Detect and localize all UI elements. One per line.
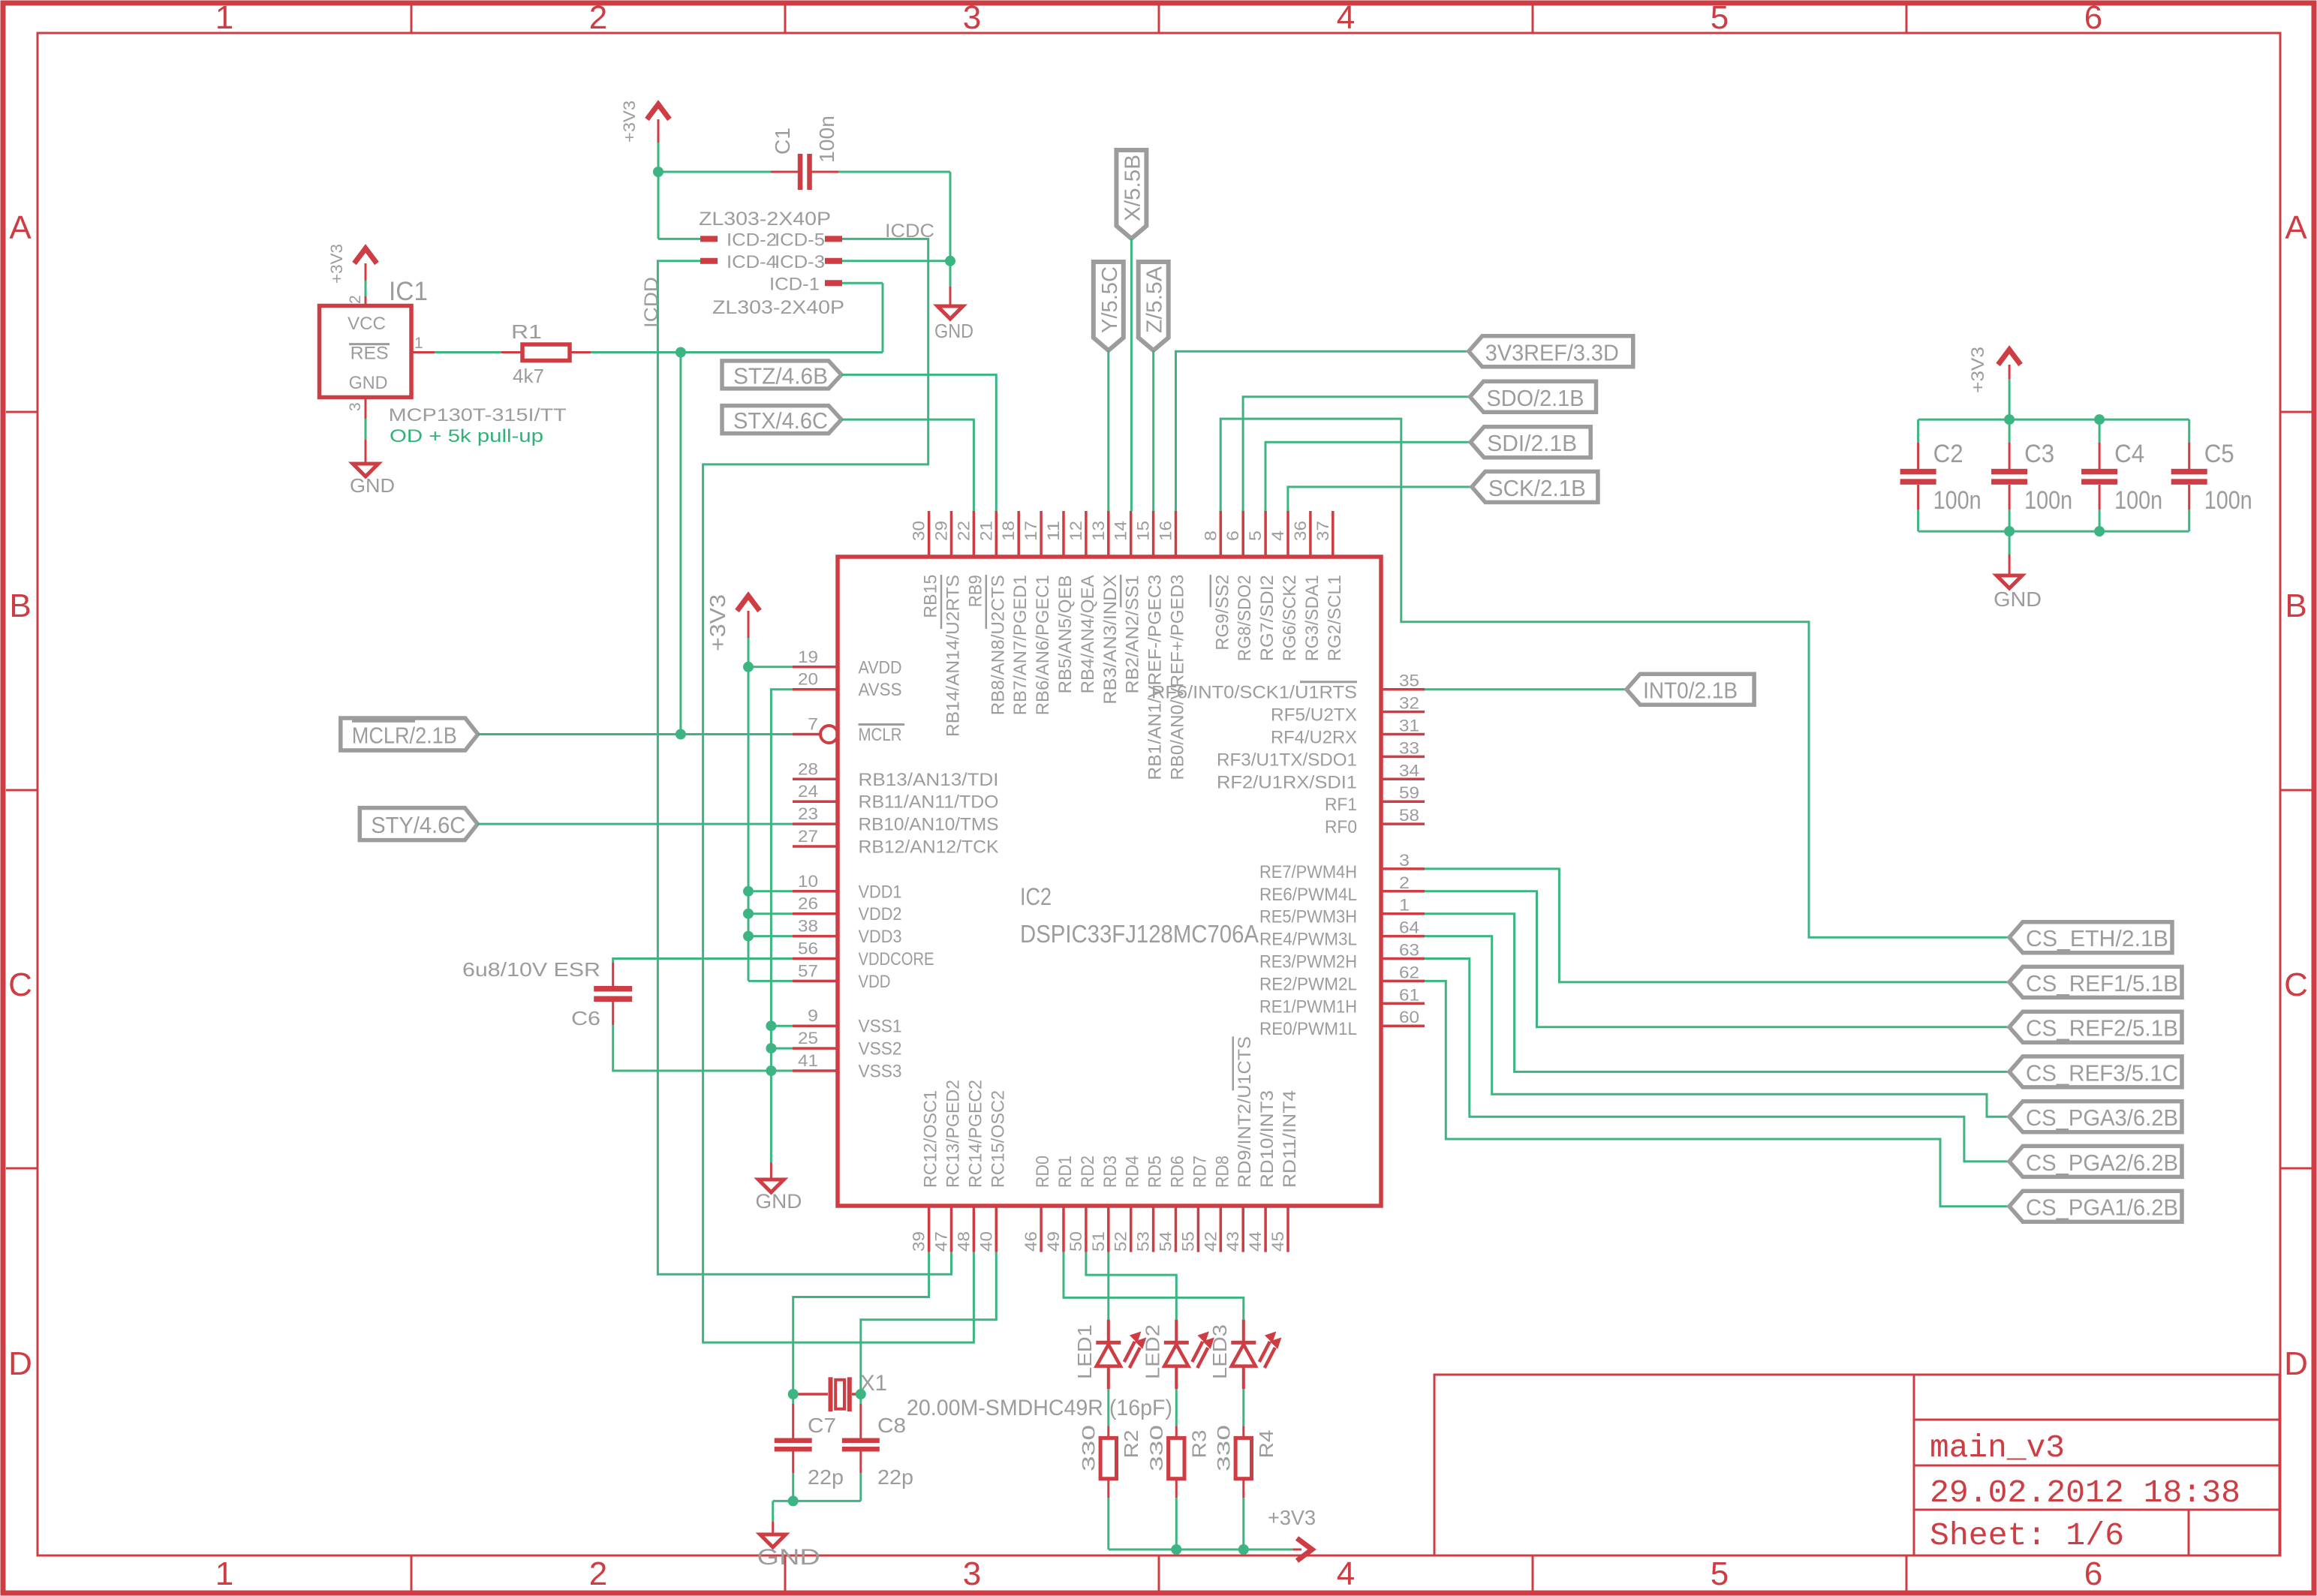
svg-text:+3V3: +3V3 xyxy=(620,101,639,143)
power +3V3 (ICD) xyxy=(620,101,670,143)
svg-text:C4: C4 xyxy=(2114,440,2144,468)
resistor R1 4k7 xyxy=(501,320,591,387)
svg-text:Z/5.5A: Z/5.5A xyxy=(1143,266,1167,333)
svg-text:RB2/AN2/SS1: RB2/AN2/SS1 xyxy=(1123,575,1143,693)
net tag MCLR/2.1B xyxy=(341,718,478,750)
svg-text:10: 10 xyxy=(798,872,818,891)
svg-text:RF3/U1TX/SDO1: RF3/U1TX/SDO1 xyxy=(1217,750,1357,770)
svg-text:45: 45 xyxy=(1268,1231,1287,1252)
IC2 pin 18 RB7/AN7/PGED1 (top) xyxy=(999,511,1031,715)
IC2 pin 6 RG8/SDO2 (top) xyxy=(1223,511,1255,661)
svg-text:2: 2 xyxy=(589,0,607,36)
svg-text:RD9/INT2/U1CTS: RD9/INT2/U1CTS xyxy=(1235,1036,1255,1188)
wire R1 output / MCLR net xyxy=(591,283,883,734)
node VDD3 junction xyxy=(743,931,754,942)
svg-text:4: 4 xyxy=(1268,530,1287,541)
IC2 pin 25 VSS2 (left) xyxy=(793,1029,902,1059)
wire INT0 net (IC2 pin 35) xyxy=(1425,688,1626,690)
svg-text:ICD-2: ICD-2 xyxy=(727,230,777,251)
IC2 pin 60 RE0/PWM1L (right) xyxy=(1259,1008,1425,1039)
IC2 pin 46 RD0 (bottom) xyxy=(1022,1156,1053,1252)
node crystal right junction xyxy=(856,1389,866,1399)
resistor R2 330 xyxy=(1079,1425,1142,1498)
svg-text:GND: GND xyxy=(349,373,388,393)
svg-text:2: 2 xyxy=(589,1555,607,1592)
IC2 pin 13 RB3/AN3/INDX (top) xyxy=(1089,511,1121,705)
svg-text:RD1: RD1 xyxy=(1055,1156,1076,1188)
svg-text:58: 58 xyxy=(1399,806,1419,825)
svg-text:RE6/PWM4L: RE6/PWM4L xyxy=(1259,885,1357,905)
svg-text:41: 41 xyxy=(798,1051,818,1070)
wire C1 right to ICD-3 / GND xyxy=(838,172,950,287)
IC1 MCP130T-315I/TT xyxy=(320,295,435,419)
svg-text:IC2: IC2 xyxy=(1020,883,1052,910)
svg-text:RD5: RD5 xyxy=(1145,1156,1166,1188)
IC2 pin 55 RD7 (bottom) xyxy=(1178,1156,1210,1252)
IC2 pin 49 RD1 (bottom) xyxy=(1044,1156,1076,1252)
wire CS_REF3 net (IC2 pin 1) xyxy=(1425,914,2009,1072)
IC2 pin 23 RB10/AN10/TMS (left) xyxy=(793,804,999,835)
IC2 pin 24 RB11/AN11/TDO (left) xyxy=(793,782,999,813)
svg-text:28: 28 xyxy=(798,759,818,778)
wire C2-C5 bottom rail xyxy=(1918,530,2189,533)
IC2 pin 22 RB9 (top) xyxy=(954,511,985,607)
connector ICD pin ICD-5 xyxy=(775,230,842,251)
node cap rail junction C4 top xyxy=(2094,414,2105,425)
wire CS_PGA1 net (IC2 pin 62) xyxy=(1425,981,2009,1206)
svg-text:C5: C5 xyxy=(2204,440,2234,468)
svg-text:3: 3 xyxy=(1399,851,1410,870)
node LED3 rail junction xyxy=(1238,1544,1249,1555)
svg-text:SDO/2.1B: SDO/2.1B xyxy=(1487,385,1584,411)
node +3V3/C1 junction xyxy=(653,167,664,177)
capacitor C2 100n xyxy=(1900,419,1981,531)
LED LED1 xyxy=(1073,1320,1145,1389)
svg-text:55: 55 xyxy=(1178,1231,1197,1252)
svg-text:53: 53 xyxy=(1134,1231,1153,1252)
svg-text:20: 20 xyxy=(798,670,818,689)
IC2 pin 30 RB15 (top) xyxy=(910,511,941,618)
node C7 ground junction xyxy=(788,1495,799,1506)
svg-text:IC1: IC1 xyxy=(389,277,428,306)
IC2 pin 59 RF1 (right) xyxy=(1325,783,1425,815)
svg-text:12: 12 xyxy=(1067,521,1085,541)
net tag CS_ETH/2.1B xyxy=(2009,922,2172,953)
svg-text:1: 1 xyxy=(1399,896,1410,915)
node LED2 rail junction xyxy=(1171,1544,1181,1555)
svg-text:4: 4 xyxy=(1337,0,1355,36)
svg-text:C: C xyxy=(2284,966,2308,1003)
wire C1 left xyxy=(658,171,771,173)
svg-text:Y/5.5C: Y/5.5C xyxy=(1098,266,1122,333)
power +3V3 (C2-C5) xyxy=(1968,347,2021,393)
IC2 pin 37 RG2/SCL1 (top) xyxy=(1313,511,1345,661)
svg-text:LED3: LED3 xyxy=(1208,1324,1231,1379)
node VDD1 junction xyxy=(743,886,754,897)
svg-text:R3: R3 xyxy=(1187,1430,1210,1459)
svg-text:15: 15 xyxy=(1134,521,1153,541)
ground (crystal) xyxy=(757,1522,820,1570)
IC2 pin 28 RB13/AN13/TDI (left) xyxy=(793,759,999,790)
svg-text:RB0/AN0/VREF+/PGED3: RB0/AN0/VREF+/PGED3 xyxy=(1168,575,1188,780)
IC2 pin 11 RB5/AN5/QEB (top) xyxy=(1044,511,1076,693)
wire R3 to +3V3 rail xyxy=(1175,1498,1178,1549)
svg-text:34: 34 xyxy=(1399,761,1419,780)
net tag CS_REF3/5.1C xyxy=(2009,1056,2182,1087)
svg-text:VSS2: VSS2 xyxy=(859,1039,902,1059)
svg-text:+3V3: +3V3 xyxy=(1968,347,1988,393)
wire STX to IC2 pin 22 xyxy=(841,419,973,511)
title block xyxy=(1434,1375,2279,1555)
capacitor C8 22p xyxy=(842,1394,913,1489)
svg-text:LED2: LED2 xyxy=(1142,1324,1164,1379)
capacitor C6 6u8/10V ESR xyxy=(462,958,632,1029)
IC2 pin 43 RD9/INT2/U1CTS (bottom) xyxy=(1223,1036,1255,1252)
svg-text:29: 29 xyxy=(932,521,951,541)
svg-text:Sheet: 1/6: Sheet: 1/6 xyxy=(1930,1517,2124,1554)
svg-text:5: 5 xyxy=(1711,0,1729,36)
node ICD-3/GND junction xyxy=(945,256,955,266)
svg-text:VSS1: VSS1 xyxy=(859,1017,902,1037)
svg-text:INT0/2.1B: INT0/2.1B xyxy=(1643,678,1738,704)
node VSS3 junction xyxy=(766,1066,776,1076)
svg-text:49: 49 xyxy=(1044,1231,1063,1252)
IC2 pin 36 RG3/SDA1 (top) xyxy=(1291,511,1322,661)
net tag CS_PGA1/6.2B xyxy=(2009,1191,2182,1222)
svg-text:D: D xyxy=(8,1345,32,1382)
svg-text:30: 30 xyxy=(910,521,928,541)
svg-text:38: 38 xyxy=(798,917,818,936)
node VSS1 junction xyxy=(766,1020,776,1031)
IC2 pin 35 RF6/INT0/SCK1/U1RTS (right) xyxy=(1151,672,1425,703)
IC2 pin 19 AVDD (left) xyxy=(793,648,902,678)
svg-text:RC12/OSC1: RC12/OSC1 xyxy=(921,1090,941,1188)
wire AVSS/VSS ground net xyxy=(771,690,793,1163)
IC2 pin 27 RB12/AN12/TCK (left) xyxy=(793,827,999,858)
node R1/ICD junction xyxy=(676,347,686,358)
node cap rail junction C4 bottom xyxy=(2094,526,2105,537)
IC2 pin 48 RC14/PGEC2 (bottom) xyxy=(954,1080,985,1252)
svg-text:6u8/10V ESR: 6u8/10V ESR xyxy=(462,958,600,981)
svg-text:39: 39 xyxy=(910,1231,928,1252)
capacitor C3 100n xyxy=(1991,419,2072,531)
svg-text:61: 61 xyxy=(1399,985,1419,1004)
svg-text:40: 40 xyxy=(976,1231,995,1252)
IC2 pin 1 RE5/PWM3H (right) xyxy=(1259,896,1425,927)
svg-text:6: 6 xyxy=(2084,0,2102,36)
node cap rail junction C3 top xyxy=(2004,414,2015,425)
svg-text:19: 19 xyxy=(798,648,818,666)
net tag X/5.5B xyxy=(1116,150,1146,239)
IC2 pin 39 RC12/OSC1 (bottom) xyxy=(910,1090,941,1252)
svg-text:main_v3: main_v3 xyxy=(1930,1429,2065,1466)
wire C2-C5 top rail xyxy=(1918,419,2189,421)
wire X to IC2 pin 14 xyxy=(1130,239,1133,511)
svg-text:RE4/PWM3L: RE4/PWM3L xyxy=(1259,930,1357,950)
svg-text:RF6/INT0/SCK1/U1RTS: RF6/INT0/SCK1/U1RTS xyxy=(1151,683,1357,703)
wire ICDC net (ICD-5 to IC2 pin 48) xyxy=(703,239,974,1342)
svg-text:ICD-1: ICD-1 xyxy=(769,275,820,295)
svg-text:100n: 100n xyxy=(2114,486,2162,515)
svg-text:RE2/PWM2L: RE2/PWM2L xyxy=(1259,974,1357,994)
svg-text:7: 7 xyxy=(808,715,818,734)
svg-text:32: 32 xyxy=(1399,694,1419,713)
svg-text:4k7: 4k7 xyxy=(513,365,544,387)
net tag SCK/2.1B xyxy=(1472,471,1598,502)
svg-text:AVDD: AVDD xyxy=(859,657,902,678)
IC2 pin 47 RC13/PGED2 (bottom) xyxy=(932,1080,964,1252)
svg-text:RB9: RB9 xyxy=(965,575,985,607)
wire +3V3 to IC1 VCC xyxy=(365,281,367,296)
svg-text:RE7/PWM4H: RE7/PWM4H xyxy=(1259,862,1357,882)
wire C6 to VSS3 xyxy=(613,1025,793,1071)
svg-text:ICD-3: ICD-3 xyxy=(775,252,825,272)
wire IC2 pin 49 to LED3 xyxy=(1064,1252,1244,1320)
svg-text:SDI/2.1B: SDI/2.1B xyxy=(1487,430,1577,456)
svg-text:3: 3 xyxy=(347,402,364,411)
svg-text:23: 23 xyxy=(798,804,818,823)
IC2 pin 9 VSS1 (left) xyxy=(793,1006,902,1037)
svg-text:RG7/SDI2: RG7/SDI2 xyxy=(1257,575,1277,661)
net tag SDI/2.1B xyxy=(1470,427,1590,458)
resistor R3 330 xyxy=(1147,1425,1211,1498)
svg-text:RG2/SCL1: RG2/SCL1 xyxy=(1325,575,1345,661)
svg-text:RG9/SS2: RG9/SS2 xyxy=(1212,575,1232,651)
svg-text:GND: GND xyxy=(1994,588,2042,611)
IC2 pin 51 RD3 (bottom) xyxy=(1089,1156,1121,1252)
svg-text:RE5/PWM3H: RE5/PWM3H xyxy=(1259,907,1357,927)
svg-text:46: 46 xyxy=(1022,1231,1040,1252)
svg-text:CS_PGA2/6.2B: CS_PGA2/6.2B xyxy=(2026,1150,2178,1176)
wire IC2 pin 40 to crystal xyxy=(861,1252,997,1394)
svg-text:5: 5 xyxy=(1246,530,1265,541)
wire C7/C8 to ground xyxy=(773,1473,861,1522)
IC2 pin 14 RB2/AN2/SS1 (top) xyxy=(1112,511,1143,693)
svg-text:RE1/PWM1H: RE1/PWM1H xyxy=(1259,996,1357,1017)
svg-text:C3: C3 xyxy=(2024,440,2054,468)
svg-text:RG8/SDO2: RG8/SDO2 xyxy=(1235,575,1255,661)
IC2 pin 50 RD2 (bottom) xyxy=(1067,1156,1098,1252)
svg-text:43: 43 xyxy=(1223,1231,1242,1252)
net tag 3V3REF/3.3D xyxy=(1469,336,1633,367)
svg-text:60: 60 xyxy=(1399,1008,1419,1026)
node MCLR junction xyxy=(676,729,686,740)
IC2 pin 40 RC15/OSC2 (bottom) xyxy=(976,1090,1008,1252)
svg-text:OD + 5k pull-up: OD + 5k pull-up xyxy=(390,426,543,446)
svg-text:RB1/AN1/VREF-/PGEC3: RB1/AN1/VREF-/PGEC3 xyxy=(1145,575,1166,780)
IC2 pin 61 RE1/PWM1H (right) xyxy=(1259,985,1425,1017)
IC2 pin 31 RF4/U2RX (right) xyxy=(1271,717,1425,748)
power +3V3 (LED rail) xyxy=(1268,1506,1316,1561)
svg-text:100n: 100n xyxy=(2204,486,2252,515)
wire R2 to +3V3 rail xyxy=(1107,1498,1109,1549)
IC2 pin 53 RD5 (bottom) xyxy=(1134,1156,1166,1252)
svg-text:VSS3: VSS3 xyxy=(859,1062,902,1082)
svg-text:16: 16 xyxy=(1157,521,1175,541)
IC2 pin 56 VDDCORE (left) xyxy=(793,939,934,970)
svg-text:RG3/SDA1: RG3/SDA1 xyxy=(1302,575,1322,661)
wire Z to IC2 pin 15 xyxy=(1152,350,1154,511)
svg-text:22p: 22p xyxy=(808,1465,844,1489)
svg-text:6: 6 xyxy=(2084,1555,2102,1592)
IC2 pin 7 MCLR (left) xyxy=(793,715,904,746)
svg-text:5: 5 xyxy=(1711,1555,1729,1592)
node VSS2 junction xyxy=(766,1043,776,1053)
wire ICD-1 stub xyxy=(842,282,883,284)
svg-text:RB14/AN14/U2RTS: RB14/AN14/U2RTS xyxy=(943,575,964,737)
power +3V3 (IC1) xyxy=(327,244,377,284)
wire CS_REF1 net (IC2 pin 3) xyxy=(1425,869,2009,982)
svg-text:GND: GND xyxy=(757,1545,820,1570)
svg-text:RG6/SCK2: RG6/SCK2 xyxy=(1280,575,1300,661)
LED LED2 xyxy=(1142,1320,1214,1389)
svg-text:CS_PGA1/6.2B: CS_PGA1/6.2B xyxy=(2026,1195,2178,1221)
svg-text:RC15/OSC2: RC15/OSC2 xyxy=(988,1090,1008,1188)
wire STZ to IC2 pin 21 xyxy=(841,374,996,511)
power +3V3 (IC2 VDD) xyxy=(706,594,760,651)
IC2 pin 41 VSS3 (left) xyxy=(793,1051,902,1082)
IC2 pin 21 RB8/AN8/U2CTS (top) xyxy=(976,511,1008,715)
svg-text:RES: RES xyxy=(351,344,389,364)
IC2 pin 52 RD4 (bottom) xyxy=(1112,1156,1143,1252)
LED LED3 xyxy=(1208,1320,1280,1389)
svg-text:RD4: RD4 xyxy=(1123,1156,1143,1188)
wire LED2 to R3 xyxy=(1175,1389,1178,1426)
svg-text:RF5/U2TX: RF5/U2TX xyxy=(1271,705,1357,726)
svg-text:RF2/U1RX/SDI1: RF2/U1RX/SDI1 xyxy=(1217,772,1357,792)
svg-text:27: 27 xyxy=(798,827,818,846)
svg-text:22p: 22p xyxy=(877,1465,913,1489)
svg-text:ZL303-2X40P: ZL303-2X40P xyxy=(699,209,831,230)
svg-text:42: 42 xyxy=(1201,1231,1220,1252)
wire MCLR tag to IC2 pin 7 xyxy=(478,733,820,735)
connector ICD pin ICD-3 xyxy=(775,252,842,272)
IC2 pin 20 AVSS (left) xyxy=(793,670,902,701)
net tag STZ/4.6B xyxy=(722,361,841,389)
svg-text:D: D xyxy=(2284,1345,2308,1382)
svg-text:VDD: VDD xyxy=(859,972,891,992)
ground (IC1) xyxy=(350,464,395,497)
net tag CS_REF2/5.1B xyxy=(2009,1011,2182,1042)
IC2 pin 26 VDD2 (left) xyxy=(793,894,902,925)
svg-text:26: 26 xyxy=(798,894,818,913)
IC2 pin 62 RE2/PWM2L (right) xyxy=(1259,963,1425,994)
svg-text:48: 48 xyxy=(954,1231,973,1252)
svg-text:RE3/PWM2H: RE3/PWM2H xyxy=(1259,952,1357,972)
svg-text:31: 31 xyxy=(1399,717,1419,735)
svg-text:14: 14 xyxy=(1112,521,1130,541)
svg-text:57: 57 xyxy=(798,961,818,980)
svg-text:R1: R1 xyxy=(511,320,542,343)
svg-text:RD3: RD3 xyxy=(1100,1156,1121,1188)
net tag INT0/2.1B xyxy=(1626,674,1754,705)
IC2 pin 33 RF3/U1TX/SDO1 (right) xyxy=(1217,738,1425,770)
node VDD2 junction xyxy=(743,909,754,919)
svg-text:RF4/U2RX: RF4/U2RX xyxy=(1271,728,1357,748)
svg-text:A: A xyxy=(9,209,32,246)
svg-text:6: 6 xyxy=(1223,530,1242,541)
IC2 pin 29 RB14/AN14/U2RTS (top) xyxy=(932,511,964,737)
wire IC1 pin3 to ground xyxy=(365,419,367,464)
svg-text:CS_ETH/2.1B: CS_ETH/2.1B xyxy=(2026,925,2168,951)
svg-text:CS_REF3/5.1C: CS_REF3/5.1C xyxy=(2026,1059,2178,1086)
svg-text:B: B xyxy=(9,588,31,624)
IC2 pin 4 RG6/SCK2 (top) xyxy=(1268,511,1300,661)
svg-text:RB15: RB15 xyxy=(921,575,941,618)
wire Y to IC2 pin 13 xyxy=(1107,350,1109,511)
svg-text:ICDC: ICDC xyxy=(885,221,934,242)
wire SDI net (IC2 pin 5) xyxy=(1265,442,1470,511)
svg-text:330: 330 xyxy=(1079,1425,1099,1471)
wire STY to IC2 pin 23 xyxy=(477,823,793,825)
node crystal left junction xyxy=(788,1389,799,1399)
svg-text:25: 25 xyxy=(798,1029,818,1047)
net tag CS_PGA3/6.2B xyxy=(2009,1102,2182,1132)
IC2 DSPIC33FJ128MC706A body xyxy=(838,557,1381,1206)
node AVDD junction xyxy=(743,662,754,672)
capacitor C7 22p xyxy=(775,1394,844,1489)
wire CS_REF2 net (IC2 pin 2) xyxy=(1425,891,2009,1027)
svg-text:C8: C8 xyxy=(877,1414,906,1437)
svg-text:C2: C2 xyxy=(1933,440,1963,468)
svg-text:RB13/AN13/TDI: RB13/AN13/TDI xyxy=(859,770,999,790)
svg-text:RC14/PGEC2: RC14/PGEC2 xyxy=(965,1080,985,1188)
svg-text:50: 50 xyxy=(1067,1231,1085,1252)
capacitor C4 100n xyxy=(2081,419,2162,531)
svg-text:330: 330 xyxy=(1214,1425,1234,1471)
IC2 pin 58 RF0 (right) xyxy=(1325,806,1425,837)
net tag STY/4.6C xyxy=(360,808,477,840)
svg-text:VDDCORE: VDDCORE xyxy=(859,949,934,969)
svg-text:+3V3: +3V3 xyxy=(706,594,730,651)
svg-text:4: 4 xyxy=(1337,1555,1355,1592)
svg-text:59: 59 xyxy=(1399,783,1419,802)
svg-text:R2: R2 xyxy=(1120,1430,1142,1459)
crystal X1 20.00M-SMDHC49R xyxy=(797,1371,1172,1420)
svg-text:C: C xyxy=(8,966,32,1003)
IC2 pin 34 RF2/U1RX/SDI1 (right) xyxy=(1217,761,1425,792)
wire cap rail to ground xyxy=(2009,531,2011,555)
svg-text:VDD3: VDD3 xyxy=(859,927,902,947)
svg-text:MCLR/2.1B: MCLR/2.1B xyxy=(352,723,457,749)
svg-text:330: 330 xyxy=(1147,1425,1167,1471)
wire CS_ETH net (IC2 pin 8) xyxy=(1220,419,2009,937)
svg-text:64: 64 xyxy=(1399,918,1419,937)
svg-text:+3V3: +3V3 xyxy=(1268,1506,1316,1529)
wire LED1 to R2 xyxy=(1107,1389,1109,1426)
svg-text:100n: 100n xyxy=(815,116,838,163)
wire R4 to +3V3 rail xyxy=(1242,1498,1244,1549)
svg-text:RB7/AN7/PGED1: RB7/AN7/PGED1 xyxy=(1010,575,1031,715)
svg-text:C7: C7 xyxy=(808,1414,836,1437)
node cap rail junction C3 bottom xyxy=(2004,526,2015,537)
svg-text:R4: R4 xyxy=(1255,1430,1277,1459)
net tag CS_PGA2/6.2B xyxy=(2009,1146,2182,1177)
wire 3V3REF net (IC2 pin 16) xyxy=(1176,351,1469,511)
svg-text:RB11/AN11/TDO: RB11/AN11/TDO xyxy=(859,792,999,813)
svg-text:24: 24 xyxy=(798,782,818,801)
wire CS_PGA2 net (IC2 pin 63) xyxy=(1425,959,2009,1162)
wire CS_PGA3 net (IC2 pin 64) xyxy=(1425,936,2009,1117)
IC2 pin 57 VDD (left) xyxy=(793,961,891,992)
connector ICD pin ICD-4 xyxy=(700,252,777,272)
connector ICD pin ICD-1 xyxy=(769,275,842,295)
IC2 pin 44 RD10/INT3 (bottom) xyxy=(1246,1090,1277,1252)
svg-text:100n: 100n xyxy=(2024,486,2072,515)
svg-text:51: 51 xyxy=(1089,1231,1108,1252)
svg-text:62: 62 xyxy=(1399,963,1419,981)
wire IC2 pin 50 to LED2 xyxy=(1086,1252,1176,1320)
